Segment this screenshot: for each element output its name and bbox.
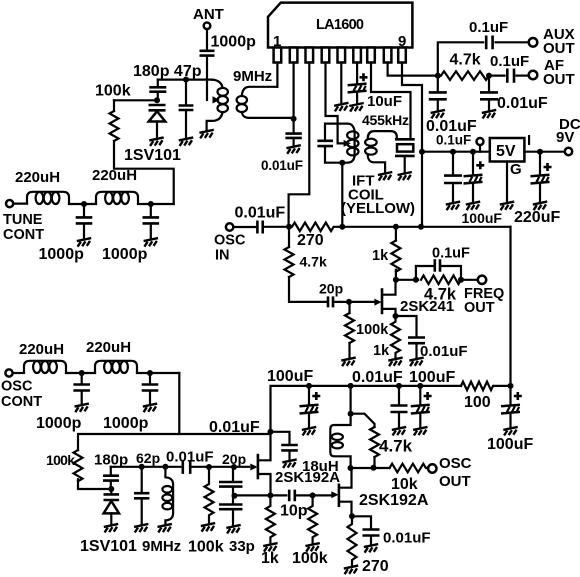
resistor 100k (bottom) bbox=[308, 495, 317, 543]
junction dot FET2 source bbox=[349, 513, 355, 519]
inductor 220uH (tune 1) bbox=[27, 192, 69, 204]
junction dot 2SK241 gate bbox=[346, 299, 352, 305]
capacitor 1000p (antenna) bbox=[200, 51, 215, 56]
junction dot 1k top bbox=[393, 224, 399, 230]
svg-text:0.01uF: 0.01uF bbox=[166, 449, 214, 466]
gate rail bottom row bbox=[111, 466, 181, 468]
svg-text:1k: 1k bbox=[372, 248, 389, 264]
svg-text:1000p: 1000p bbox=[36, 415, 82, 432]
wire rail to 180p bbox=[157, 80, 159, 87]
wire 4.7k osc2 top bbox=[351, 414, 375, 427]
capacitor 1000p (osc 1) bbox=[81, 373, 83, 384]
junction dot osc 1 bbox=[79, 370, 85, 376]
resistor 100k (upper left) bbox=[110, 111, 119, 141]
svg-text:220uH: 220uH bbox=[15, 169, 60, 186]
junction dot IFT bottom bbox=[339, 160, 345, 166]
svg-text:220uH: 220uH bbox=[86, 339, 131, 356]
resistor 4.7k (osc2) bbox=[370, 427, 379, 457]
capacitor 100uF electrolytic (bus 1) bbox=[308, 386, 310, 405]
svg-text:10k: 10k bbox=[391, 476, 418, 493]
wire rail to 180p bbox=[110, 467, 112, 475]
9MHz transformer primary bbox=[207, 80, 228, 131]
junction dot 100k bottom bbox=[310, 492, 316, 498]
svg-text:2SK192A: 2SK192A bbox=[359, 492, 429, 509]
junction dot 0.01uF bus bbox=[396, 383, 402, 389]
ground (drain bypass) bbox=[282, 459, 296, 468]
op-amp U1 LA1600 body bbox=[268, 3, 412, 48]
wire to divider node bbox=[232, 488, 234, 496]
svg-text:20p: 20p bbox=[319, 281, 343, 297]
svg-text:1000p: 1000p bbox=[102, 246, 148, 263]
svg-text:270: 270 bbox=[362, 558, 389, 575]
wire to ground bbox=[539, 184, 541, 203]
junction dot 0.1uF bbox=[450, 149, 456, 155]
capacitor 33p bbox=[232, 495, 234, 503]
wire 100uF down bbox=[472, 152, 474, 175]
capacitor 0.1uF (AUX) bbox=[486, 36, 492, 50]
junction dot osc-cont/drain bbox=[268, 429, 274, 435]
svg-text:100k: 100k bbox=[95, 83, 131, 100]
ground (G) bbox=[500, 202, 514, 211]
svg-text:1SV101: 1SV101 bbox=[124, 147, 181, 164]
capacitor 10p bbox=[289, 490, 295, 502]
svg-text:IN: IN bbox=[215, 248, 230, 264]
capacitor 0.1uF (AF) bbox=[507, 69, 514, 83]
svg-text:0.01uF: 0.01uF bbox=[420, 343, 468, 360]
pin 7 bbox=[367, 48, 375, 63]
pin 4 bbox=[322, 48, 330, 63]
ground (270 bottom) bbox=[344, 566, 358, 575]
svg-text:0.1uF: 0.1uF bbox=[469, 19, 508, 36]
ground (100uF bus 2) bbox=[413, 427, 427, 436]
svg-text:I: I bbox=[527, 132, 531, 149]
svg-text:0.01uF: 0.01uF bbox=[235, 205, 286, 222]
svg-text:5V: 5V bbox=[496, 143, 516, 160]
capacitor 0.1uF (freq) bbox=[435, 259, 440, 272]
svg-text:OSC: OSC bbox=[214, 233, 246, 249]
junction dot pin9 rail / filter bbox=[419, 149, 425, 155]
junction dot 47p node bbox=[183, 77, 189, 83]
wire 100k bottom to tune node bbox=[114, 141, 174, 204]
inductor 220uH (tune 2) bbox=[96, 192, 138, 204]
capacitor 10uF electrolytic bbox=[348, 84, 367, 93]
ground (osc cap 1) bbox=[75, 404, 89, 413]
OSC IN terminal bbox=[226, 223, 233, 230]
svg-text:4.7k: 4.7k bbox=[300, 254, 327, 270]
wire pin 6 down bbox=[356, 63, 358, 85]
wire pin 7 route bbox=[371, 63, 411, 139]
wire 0.01uF below AF-right bbox=[488, 76, 490, 92]
junction dot AF left bbox=[435, 73, 441, 79]
wire to 0.1uF AF bbox=[489, 74, 505, 76]
resistor 270 (bottom) bbox=[348, 516, 357, 566]
pin 9 bbox=[398, 48, 406, 63]
wire source to 0.01uF bbox=[396, 316, 417, 337]
svg-text:1000p: 1000p bbox=[211, 34, 257, 51]
svg-text:1k: 1k bbox=[261, 550, 279, 567]
svg-text:220uF: 220uF bbox=[514, 209, 560, 226]
0.1uF bypass loop bbox=[416, 266, 461, 280]
junction dot OSC IN node bbox=[286, 224, 292, 230]
junction dot tune 2 bbox=[148, 201, 154, 207]
capacitor 0.01uF (OSC IN) bbox=[257, 221, 262, 234]
ground (100k 2SK241) bbox=[341, 358, 355, 367]
svg-text:0.01uF: 0.01uF bbox=[261, 158, 303, 173]
ground (osc cap 2) bbox=[143, 404, 157, 413]
svg-text:455kHz: 455kHz bbox=[362, 112, 409, 128]
resistor 100k (mid) bbox=[205, 467, 214, 523]
svg-text:CONT: CONT bbox=[3, 227, 44, 243]
wire 0.1uF down bbox=[452, 152, 454, 175]
capacitor 0.01uF (drain bypass) bbox=[281, 445, 298, 450]
ground (100k bottom) bbox=[305, 543, 319, 552]
svg-text:0.01uF: 0.01uF bbox=[497, 95, 548, 112]
svg-text:OUT: OUT bbox=[439, 473, 471, 490]
junction dot 9MHz coil bbox=[162, 464, 168, 470]
wire cap to node bbox=[265, 226, 289, 228]
capacitor 220uF electrolytic bbox=[531, 175, 550, 184]
svg-text:1000p: 1000p bbox=[39, 246, 85, 263]
wire to ground bbox=[488, 100, 490, 110]
resistor 1k (bottom) bbox=[266, 495, 275, 543]
svg-text:10p: 10p bbox=[280, 503, 308, 520]
resistor 4.7k (AF) bbox=[441, 71, 489, 80]
ground (100uF bus 3) bbox=[503, 427, 517, 436]
source row wire bbox=[233, 494, 286, 496]
wire 10p to gate2 bbox=[297, 494, 331, 496]
capacitor 0.01uF (bus) bbox=[398, 386, 400, 405]
svg-text:9V: 9V bbox=[556, 129, 574, 146]
wire 20p to gate bbox=[335, 301, 378, 303]
ground (100uF 5V) bbox=[466, 202, 480, 211]
svg-text:100: 100 bbox=[464, 394, 491, 411]
junction dot 4.7k bottom bbox=[371, 465, 377, 471]
resistor 100 (bus) bbox=[461, 382, 511, 391]
ground (pin2 cap) bbox=[286, 145, 300, 154]
varactor 1SV101 (upper) bbox=[149, 105, 166, 138]
drain rail to 10k bbox=[351, 467, 390, 469]
capacitor 100uF electrolytic (bus 3) bbox=[509, 386, 511, 405]
455kHz ceramic filter bbox=[395, 139, 415, 172]
ground (tune cap 2) bbox=[144, 238, 158, 247]
inductor 220uH (osc 1) bbox=[24, 361, 66, 373]
wire 0.1uF to AUX OUT bbox=[496, 41, 528, 43]
ground (62p) bbox=[134, 524, 148, 533]
ground (1k source) bbox=[388, 358, 402, 367]
ground (0.01uF source) bbox=[409, 358, 423, 367]
wire OSC IN to cap bbox=[234, 226, 255, 228]
svg-text:180p 47p: 180p 47p bbox=[133, 63, 202, 80]
wire terminal to L3 bbox=[14, 372, 24, 374]
ground (1k bottom) bbox=[263, 543, 277, 552]
svg-text:0.1uF: 0.1uF bbox=[432, 246, 470, 262]
svg-text:CONT: CONT bbox=[1, 394, 42, 410]
svg-text:OSC: OSC bbox=[439, 455, 472, 472]
inductor 18uH bbox=[330, 414, 350, 468]
ground (1SV101 upper) bbox=[149, 137, 163, 146]
junction dot bus right bbox=[508, 383, 514, 389]
junction dot 100uF bbox=[470, 149, 476, 155]
transistor Q1 2SK241 bbox=[374, 280, 395, 316]
svg-text:0.01uF: 0.01uF bbox=[209, 419, 260, 436]
varactor 1SV101 (bottom) bbox=[104, 489, 120, 524]
AF OUT terminal bbox=[529, 71, 538, 80]
TUNE CONT terminal bbox=[6, 200, 13, 207]
svg-text:TUNE: TUNE bbox=[3, 212, 43, 228]
svg-text:100k: 100k bbox=[188, 539, 224, 556]
svg-text:100uF: 100uF bbox=[462, 210, 503, 226]
svg-text:0.01uF: 0.01uF bbox=[352, 369, 403, 386]
svg-text:LA1600: LA1600 bbox=[316, 17, 364, 33]
capacitor 20p (divider) bbox=[232, 467, 234, 481]
wire to ground bbox=[288, 451, 290, 459]
ground (100uF bus 1) bbox=[302, 427, 316, 436]
wire 180p to varactor node bbox=[110, 482, 112, 489]
svg-text:180p: 180p bbox=[94, 452, 128, 469]
svg-text:OUT: OUT bbox=[464, 300, 495, 316]
capacitor 100uF electrolytic (bus 2) bbox=[419, 386, 421, 405]
ground (47p) bbox=[179, 137, 193, 146]
junction dot 18uH top bbox=[348, 411, 354, 417]
svg-text:4.7k: 4.7k bbox=[379, 437, 413, 456]
junction dot varactor node bbox=[154, 97, 160, 103]
wire node to 0.01uF bbox=[271, 432, 290, 444]
ground (AF right cap) bbox=[482, 110, 496, 119]
svg-text:10uF: 10uF bbox=[367, 93, 402, 110]
wire to ground bbox=[472, 184, 474, 203]
svg-text:OUT: OUT bbox=[543, 71, 575, 88]
node rail 180p/47p bbox=[158, 78, 212, 80]
ground (AF left cap) bbox=[431, 110, 445, 119]
wire rail down right side bbox=[509, 227, 511, 386]
junction dot pin2/9MHz sec bbox=[291, 116, 297, 122]
svg-text:270: 270 bbox=[297, 232, 324, 249]
transistor Q2 2SK192A (osc) bbox=[250, 432, 270, 496]
junction dot 62p bbox=[139, 464, 145, 470]
svg-text:100uF: 100uF bbox=[487, 436, 533, 453]
svg-text:0.1uF: 0.1uF bbox=[490, 53, 529, 70]
junction dot 4.7k left bbox=[413, 277, 419, 283]
junction dot drain node bbox=[393, 277, 399, 283]
capacitor 0.01uF (AF left) bbox=[429, 92, 447, 99]
svg-text:100k: 100k bbox=[292, 550, 328, 567]
junction dot 100uF bus 1 bbox=[306, 383, 312, 389]
bus rail bbox=[271, 386, 462, 432]
wire bus to 18uH node bbox=[350, 386, 352, 414]
plus sign 10uF bbox=[360, 73, 368, 81]
wire pin 2 down bbox=[293, 63, 295, 134]
wire source to 0.01uF bbox=[352, 516, 371, 528]
wire terminal to L1 bbox=[13, 202, 27, 204]
wire 47p to ground bbox=[185, 111, 187, 138]
AUX OUT terminal bbox=[529, 38, 538, 47]
transistor Q3 2SK192A (buffer) bbox=[331, 468, 351, 516]
junction dot osc 2 bbox=[147, 370, 153, 376]
IFT primary winding bbox=[347, 131, 358, 155]
wire ANT to 1000p bbox=[206, 29, 208, 50]
ground (10uF) bbox=[349, 103, 363, 112]
junction dot varactor node (bottom) bbox=[108, 486, 114, 492]
ground (pin 5) bbox=[334, 103, 348, 112]
wire L3 to L4 bbox=[66, 372, 95, 374]
wire to ground bbox=[370, 537, 372, 545]
wire pin 1 down bbox=[276, 63, 278, 87]
wire 1k drain top bbox=[395, 227, 397, 241]
pin 3 bbox=[306, 48, 314, 63]
resistor 4.7k (osc in) bbox=[285, 247, 294, 277]
svg-text:33p: 33p bbox=[229, 538, 255, 555]
wire pin 9 route bbox=[402, 63, 422, 227]
wire 0.01uF below AF-left bbox=[437, 76, 439, 92]
svg-text:1SV101: 1SV101 bbox=[80, 538, 137, 555]
svg-text:100uF: 100uF bbox=[409, 369, 455, 386]
svg-text:G: G bbox=[510, 161, 522, 178]
tap arrow into 9MHz primary bbox=[213, 96, 220, 103]
junction dot 220uF bbox=[537, 149, 543, 155]
wire 47p top bbox=[185, 80, 187, 105]
junction dot 2SK241 source bbox=[393, 313, 399, 319]
wire drain node to 4.7k bbox=[396, 279, 418, 281]
capacitor 180p (bottom) bbox=[103, 476, 119, 481]
svg-text:100uF: 100uF bbox=[267, 368, 313, 385]
svg-text:4.7k: 4.7k bbox=[424, 286, 457, 304]
regulator 5V box bbox=[490, 138, 525, 162]
junction dot pin9 rail bottom bbox=[418, 224, 424, 230]
resistor 1k (2SK241 drain) bbox=[391, 241, 400, 272]
resistor 100k (2SK241 gate) bbox=[345, 313, 354, 343]
svg-text:4.7k: 4.7k bbox=[450, 52, 481, 69]
pin 2 bbox=[290, 48, 298, 63]
resistor 1k (2SK241 source) bbox=[391, 316, 400, 358]
wire L1 to L2 bbox=[69, 203, 96, 205]
junction dot 100k mid bbox=[206, 464, 212, 470]
wire to ground bbox=[452, 184, 454, 202]
inductor 220uH (osc 2) bbox=[95, 361, 137, 373]
junction dot 4.7k right bbox=[458, 277, 464, 283]
wire 0.1uF AF to terminal bbox=[517, 74, 528, 76]
ground (9MHz bottom) bbox=[158, 524, 172, 533]
junction dot 100uF bus 2 bbox=[417, 383, 423, 389]
wire cap to gate bbox=[192, 466, 249, 468]
pin 8 bbox=[384, 48, 392, 63]
wire 180p to varactor node bbox=[157, 93, 159, 100]
ground (IFT secondary) bbox=[378, 172, 392, 181]
stub testpoint to rail bbox=[479, 146, 481, 152]
svg-text:1k: 1k bbox=[373, 343, 390, 359]
wire 100k gate down bbox=[348, 302, 350, 313]
wire AUX vertical bbox=[438, 42, 483, 75]
svg-text:100k: 100k bbox=[356, 322, 389, 338]
wire 4.7k bottom bbox=[373, 457, 375, 468]
resistor 10k bbox=[390, 464, 428, 473]
ground (220uF) bbox=[533, 202, 547, 211]
IFT secondary winding bbox=[365, 131, 397, 172]
ground (0.01uF source2) bbox=[364, 544, 378, 553]
capacitor 1000p (tune 2) bbox=[150, 204, 152, 217]
resistor 100k (osc cont) bbox=[74, 450, 83, 481]
junction dot divider bbox=[232, 493, 238, 499]
capacitor 1000p (tune 1) bbox=[83, 204, 85, 217]
svg-text:9MHz: 9MHz bbox=[142, 538, 181, 555]
ANT terminal bbox=[204, 23, 211, 30]
tap arrow into IFT primary bbox=[344, 140, 351, 147]
wire 4.7k to 20p bbox=[289, 277, 327, 302]
capacitor 1000p (osc 2) bbox=[149, 373, 151, 384]
wire pin 3 route bbox=[289, 63, 310, 227]
capacitor 62p bbox=[141, 467, 143, 493]
G wire bbox=[506, 162, 508, 203]
wire 10uF to ground bbox=[356, 93, 358, 104]
capacitor 0.01uF (pin 2) bbox=[285, 134, 301, 138]
FREQ OUT terminal bbox=[478, 276, 486, 284]
capacitor IFT tank bbox=[317, 141, 333, 146]
svg-text:ANT: ANT bbox=[193, 6, 224, 23]
junction dot 20p/33p bbox=[231, 464, 237, 470]
wire 5V out bbox=[524, 151, 564, 153]
svg-text:9MHz: 9MHz bbox=[233, 68, 272, 85]
junction dot drain rail A bbox=[348, 465, 354, 471]
capacitor 0.01uF (source) bbox=[408, 338, 425, 344]
resistor 270 bbox=[289, 223, 342, 232]
svg-text:220uH: 220uH bbox=[92, 167, 137, 184]
supply rail mid row bbox=[342, 226, 510, 228]
svg-text:0.01uF: 0.01uF bbox=[383, 530, 431, 547]
OSC CONT terminal bbox=[5, 369, 12, 376]
DC 9V terminal bbox=[565, 148, 572, 155]
wire 4.7k osc top bbox=[288, 227, 290, 247]
wire to FREQ OUT bbox=[461, 279, 477, 281]
wire osc cont routing bbox=[78, 373, 271, 450]
junction dot tune 1 bbox=[81, 201, 87, 207]
capacitor 100uF electrolytic (5V in) bbox=[464, 175, 483, 184]
capacitor 0.01uF (gate row) bbox=[183, 460, 190, 474]
svg-text:20p: 20p bbox=[222, 451, 246, 467]
wire 1k to drain node bbox=[395, 270, 397, 280]
svg-text:OSC: OSC bbox=[1, 379, 33, 395]
ground (0.1uF 5V) bbox=[446, 202, 460, 211]
inductor 9MHz (bottom) bbox=[162, 467, 173, 525]
capacitor 20p bbox=[328, 296, 333, 307]
svg-text:0.1uF: 0.1uF bbox=[436, 133, 471, 148]
supply rail to 5V reg bbox=[422, 151, 490, 153]
resistor 4.7k (freq out) bbox=[421, 276, 461, 285]
wire L2 to corner bbox=[138, 203, 174, 205]
wire IFT bottom to 270 rail bbox=[341, 163, 343, 226]
ground (100k mid) bbox=[201, 523, 215, 532]
wire 220uF down bbox=[539, 152, 541, 175]
wire 100k to ground bbox=[348, 343, 350, 358]
capacitor 180p (upper) bbox=[149, 87, 166, 91]
wire pin 4 route to IFT tap bbox=[326, 63, 345, 144]
svg-text:1000p: 1000p bbox=[103, 415, 149, 432]
wire 100k bottom to varactor node bbox=[78, 479, 111, 489]
capacitor 0.01uF (AF right) bbox=[480, 92, 498, 99]
wire 1000p to tap bbox=[206, 57, 208, 100]
wire to ground bbox=[437, 100, 439, 110]
9MHz transformer secondary bbox=[237, 87, 294, 118]
wire L4 to corner bbox=[137, 372, 179, 374]
svg-text:(YELLOW): (YELLOW) bbox=[341, 200, 415, 217]
svg-text:100k: 100k bbox=[46, 452, 75, 468]
svg-text:62p: 62p bbox=[136, 450, 160, 466]
wire pin 5 down bbox=[340, 63, 342, 104]
junction dot FET1 source bbox=[267, 492, 273, 498]
pin 6 bbox=[353, 48, 361, 63]
ground (9MHz primary) bbox=[199, 130, 213, 139]
ground (tune cap 1) bbox=[77, 238, 91, 247]
testpoint terminal O bbox=[477, 138, 484, 145]
IFT tank bottom rail bbox=[325, 147, 355, 163]
